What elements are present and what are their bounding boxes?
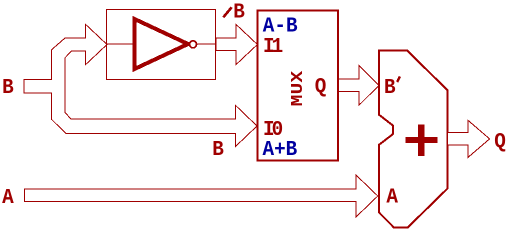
svg-text:Q: Q <box>315 75 327 99</box>
svg-text:I1: I1 <box>263 35 283 59</box>
svg-text:B: B <box>233 1 245 25</box>
svg-text:B: B <box>212 138 224 162</box>
svg-text:B: B <box>2 76 14 100</box>
svg-text:MUX: MUX <box>289 71 307 107</box>
svg-text:A: A <box>2 186 14 210</box>
svg-text:A-B: A-B <box>263 15 298 39</box>
svg-text:A+B: A+B <box>263 138 298 162</box>
svg-text:A: A <box>386 186 398 210</box>
svg-text:Q: Q <box>494 130 506 154</box>
svg-text:B: B <box>384 76 396 100</box>
